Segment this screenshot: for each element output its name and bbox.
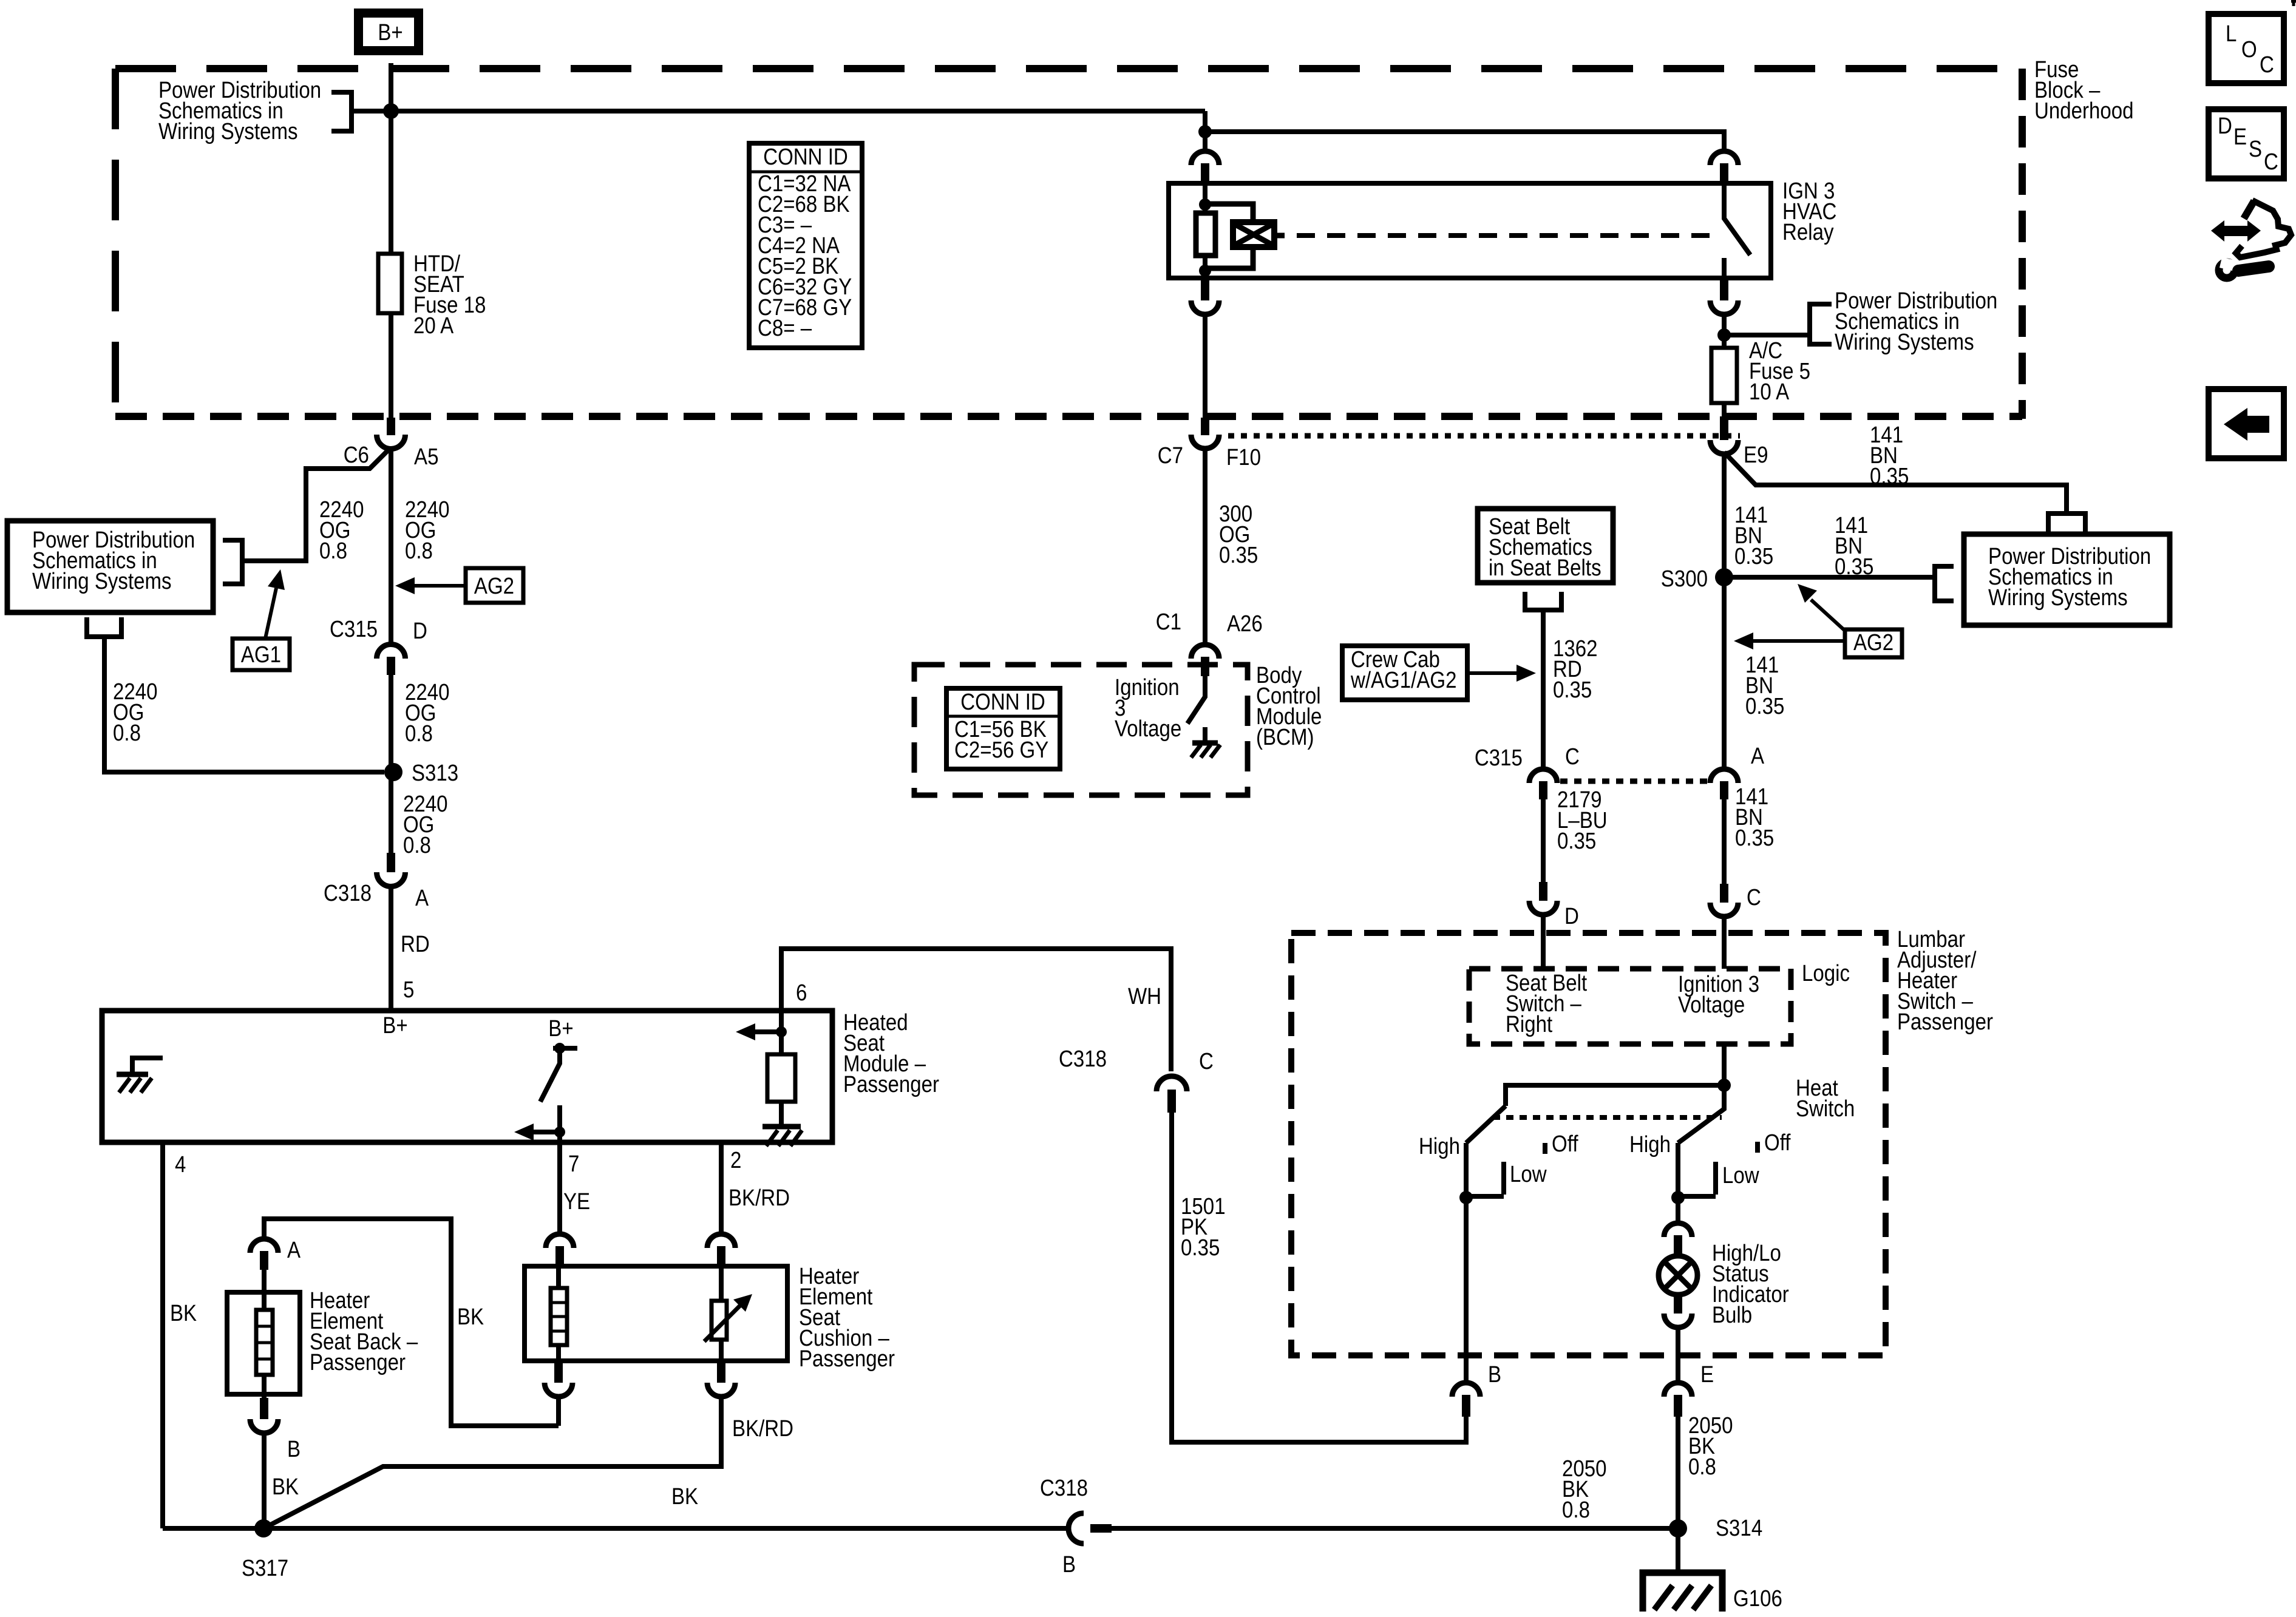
heat switch left blade <box>1466 1106 1506 1143</box>
node heat switch pivot junction <box>1717 1079 1731 1092</box>
svg-text:A: A <box>287 1237 301 1263</box>
svg-text:AG2: AG2 <box>1853 629 1894 656</box>
node heat switch left junction <box>1459 1191 1473 1204</box>
wire stub cushion left bottom <box>556 1397 561 1426</box>
connector C7/F10 stub and bowl <box>1201 418 1209 435</box>
bracket above power distribution box (top right) <box>2048 514 2085 532</box>
tag AG2 (left) <box>466 568 523 603</box>
tag Crew Cab w/AG1/AG2 <box>1342 646 1467 700</box>
svg-text:High: High <box>1629 1131 1671 1158</box>
svg-text:C1=32 NAC2=68 BKC3= –C4=2 NAC5: C1=32 NAC2=68 BKC3= –C4=2 NAC5=2 BKC6=32… <box>758 171 852 341</box>
module internal switch lower contact <box>557 1105 562 1132</box>
heater element seat back box <box>227 1292 300 1394</box>
svg-text:7: 7 <box>568 1151 579 1177</box>
heat switch left post <box>1464 1143 1469 1198</box>
svg-text:C318: C318 <box>324 880 372 906</box>
box Power Distribution Schematics in Wiring Systems (left) <box>7 521 213 612</box>
node S300 <box>1715 568 1733 586</box>
svg-text:4: 4 <box>175 1151 186 1178</box>
tag AG2 (right) <box>1845 629 1902 657</box>
heat switch right low contact <box>1678 1162 1716 1196</box>
heater element seat back connector B stub <box>260 1398 268 1419</box>
wire C315 D to C318 A <box>389 675 393 853</box>
svg-text:2: 2 <box>730 1147 741 1173</box>
connector C1 A26 cap <box>1191 645 1219 659</box>
node S314 <box>1669 1519 1687 1537</box>
connector C6/A5 terminal stub <box>387 418 395 435</box>
node S317 <box>254 1519 273 1537</box>
connector C318 A bowl <box>377 872 406 886</box>
svg-text:5: 5 <box>403 977 414 1003</box>
lamp high/lo status indicator bulb <box>1659 1256 1697 1295</box>
connector cushion right bottom stub <box>717 1361 725 1383</box>
svg-text:C1=56 BKC2=56 GY: C1=56 BKC2=56 GY <box>954 716 1048 763</box>
module internal ground (left) <box>132 1058 163 1074</box>
module internal ground (right) <box>763 1124 801 1130</box>
svg-text:A5: A5 <box>414 444 438 470</box>
svg-text:BK: BK <box>272 1474 299 1500</box>
arrow from AG2 to main wire <box>1753 639 1845 643</box>
logic dashed box <box>1469 969 1791 1044</box>
wire C6 branch to power distribution <box>242 450 389 561</box>
page corner mark <box>2291 0 2296 6</box>
svg-text:CONN ID: CONN ID <box>960 689 1045 715</box>
heated seat module box <box>102 1011 832 1142</box>
arrow from crew cab tag to wire <box>1467 671 1518 675</box>
connector C318 C cap <box>1156 1076 1187 1091</box>
svg-text:C315: C315 <box>1475 745 1523 771</box>
svg-text:Low: Low <box>1510 1161 1547 1187</box>
B+ power symbol <box>345 0 432 63</box>
ground G106 <box>1676 1528 1680 1571</box>
wire 1501 PK to lumbar switch B <box>1172 1113 1466 1442</box>
svg-text:6: 6 <box>796 980 807 1006</box>
svg-text:A26: A26 <box>1227 611 1263 637</box>
connector bulb top cap and stub <box>1664 1223 1692 1237</box>
connector C315 D terminal stub <box>387 657 395 675</box>
dotted C315 connector link <box>1560 779 1707 784</box>
connector C315 A cap and stub <box>1710 769 1738 783</box>
relay control dashed link <box>1297 233 1717 238</box>
svg-text:BK: BK <box>457 1304 484 1330</box>
svg-text:C6: C6 <box>344 442 369 468</box>
bracket to power distribution schematics (left) <box>223 540 242 584</box>
conn id table (underhood fuse block) <box>749 143 862 348</box>
svg-text:G106: G106 <box>1733 1585 1782 1612</box>
wire heat switch bus <box>1506 1085 1724 1106</box>
connector cushion left bottom stub <box>554 1361 563 1383</box>
svg-text:IGN 3HVACRelay: IGN 3HVACRelay <box>1782 178 1836 245</box>
svg-text:BK/RD: BK/RD <box>729 1185 790 1211</box>
wire bulb to E connector <box>1676 1327 1680 1383</box>
svg-text:AG2: AG2 <box>474 573 514 599</box>
svg-text:C: C <box>1747 884 1761 910</box>
BCM internal switch <box>1187 676 1205 724</box>
resistor heater element seat back <box>262 1270 267 1310</box>
svg-text:C: C <box>1565 744 1580 770</box>
heat switch left low contact <box>1466 1162 1504 1196</box>
svg-text:B+: B+ <box>382 1012 407 1039</box>
module internal switch T-bar <box>553 1046 577 1051</box>
svg-text:Logic: Logic <box>1802 960 1850 986</box>
wire S300 to A connector <box>1722 577 1727 769</box>
svg-text:S313: S313 <box>412 760 458 786</box>
node pin6 junction with arrow <box>776 1026 787 1037</box>
connector C6/A5 bowl <box>377 435 406 449</box>
wire C318 B to S314 <box>1112 1526 1678 1531</box>
svg-text:RD: RD <box>401 931 430 957</box>
resistor heater element seat cushion <box>556 1266 561 1288</box>
svg-text:A: A <box>1751 743 1764 769</box>
svg-text:B+: B+ <box>378 19 402 46</box>
DESC icon box <box>2209 109 2284 178</box>
svg-text:B: B <box>1488 1361 1501 1388</box>
wire seat back A to cushion element return <box>264 1219 559 1426</box>
connector C318 B terminal stub <box>1090 1524 1112 1533</box>
svg-text:BK: BK <box>671 1483 698 1510</box>
wire left switch to B connector <box>1464 1198 1469 1383</box>
wire main bus to relay <box>352 109 1205 114</box>
svg-text:B: B <box>287 1436 301 1462</box>
svg-text:L: L <box>2226 21 2237 47</box>
svg-text:C1: C1 <box>1156 609 1181 635</box>
BCM internal ground <box>1203 727 1207 743</box>
svg-text:O: O <box>2241 36 2257 63</box>
connector relay coil top cap <box>1191 151 1219 165</box>
svg-text:S: S <box>2249 136 2262 162</box>
relay switch <box>1724 185 1750 255</box>
bracket under left power distribution box <box>87 617 121 637</box>
wire A5 to C315 D <box>389 449 393 645</box>
wire logic output to switch bus <box>1722 1044 1727 1085</box>
conn id table (BCM) <box>946 688 1060 769</box>
connector C318 B arc <box>1068 1513 1084 1544</box>
seat belt schematics box <box>1478 509 1613 583</box>
back arrow icon box <box>2209 389 2284 458</box>
bracket under seat belt box <box>1525 592 1561 610</box>
fuse block underhood dashed box left edge <box>112 69 119 416</box>
relay coil <box>1203 185 1207 213</box>
svg-text:A: A <box>415 885 429 911</box>
connector lumbar C stub and bowl <box>1720 884 1728 903</box>
wire relay top bus <box>1205 132 1724 151</box>
connector E9 stub and bowl <box>1720 416 1728 440</box>
node relay feed junction <box>1198 125 1212 138</box>
heater element seat back connector A cap <box>250 1239 278 1253</box>
node A/C fuse feed junction <box>1717 328 1731 342</box>
wire bus corner to relay coil side <box>1203 111 1207 132</box>
bracket to power distribution schematics (relay area) <box>1810 304 1832 344</box>
fuse block underhood dashed box bottom edge <box>115 413 2022 420</box>
wire cushion right to S317 <box>263 1397 721 1528</box>
lumbar adjuster heater switch dashed box <box>1291 933 1886 1355</box>
svg-text:Low: Low <box>1722 1162 1759 1188</box>
arrow from AG1 to wire <box>265 588 276 639</box>
dotted mechanical link between blades <box>1493 1115 1722 1120</box>
node bus junction at B+ feed <box>383 103 399 119</box>
svg-text:C: C <box>2260 52 2274 78</box>
wire C315 C to D <box>1541 799 1546 882</box>
svg-text:D: D <box>413 618 427 644</box>
svg-text:YE: YE <box>563 1188 590 1215</box>
wire right switch to bulb <box>1676 1198 1680 1223</box>
svg-text:D: D <box>2218 113 2232 139</box>
fuse F5 A/C <box>1711 348 1737 403</box>
svg-text:C318: C318 <box>1040 1475 1088 1501</box>
relay K IGN3 HVAC box <box>1169 183 1771 278</box>
wire C to logic box <box>1722 917 1727 969</box>
connector C318 A terminal stub <box>387 853 395 872</box>
wire pin 4 to S317 <box>160 1142 165 1528</box>
wire relay coil to C7 <box>1203 314 1207 419</box>
connector cushion left bottom bowl <box>545 1383 572 1397</box>
variable resistor (thermistor) seat cushion <box>719 1266 724 1301</box>
wire left branch to S313 <box>104 637 384 772</box>
heater element seat cushion box <box>525 1266 787 1361</box>
svg-text:AG1: AG1 <box>241 642 281 668</box>
wire pin 7 to cushion element <box>557 1132 562 1235</box>
label Off (left) with tick <box>1543 1143 1547 1154</box>
svg-text:WH: WH <box>1128 983 1161 1009</box>
connector lumbar E cap and stub <box>1664 1383 1692 1397</box>
connector cushion pin2 cap <box>707 1234 735 1248</box>
label Off (right) with tick <box>1755 1142 1760 1153</box>
svg-text:B+: B+ <box>548 1015 573 1042</box>
tag AG1 <box>233 639 290 670</box>
module internal resistor (pin6) <box>779 1011 784 1054</box>
connector C318 C terminal stub <box>1167 1090 1176 1113</box>
fuse block underhood dashed box right edge <box>2019 69 2026 419</box>
bracket to power distribution schematics (S300 branch) <box>1935 566 1954 601</box>
connector relay switch top cap <box>1710 151 1738 165</box>
connector lumbar D stub and bowl <box>1539 882 1547 901</box>
svg-text:BK/RD: BK/RD <box>732 1415 793 1442</box>
wire S300 branch to power distribution <box>1724 575 1935 580</box>
svg-text:Off: Off <box>1552 1131 1578 1157</box>
wire E9 to S300 <box>1722 454 1727 577</box>
relay driver branch <box>1205 204 1253 268</box>
svg-text:E: E <box>2233 124 2247 150</box>
connector relay switch bottom stub and bowl <box>1720 278 1728 300</box>
svg-text:S300: S300 <box>1661 566 1708 592</box>
wire pin 6 to C318 C <box>781 949 1171 1071</box>
wire coil side drop <box>1203 132 1207 151</box>
wire fuse 18 to connector C6/A5 <box>389 313 393 419</box>
wire seat back B to S317 <box>262 1433 267 1528</box>
wire D to logic box <box>1541 915 1546 969</box>
node heat switch right junction <box>1671 1191 1685 1204</box>
wire fuse 5 to E9 <box>1722 403 1727 418</box>
connector cushion pin7 cap <box>546 1234 574 1248</box>
node pin7 junction with arrow <box>554 1127 565 1137</box>
svg-text:S317: S317 <box>242 1555 288 1581</box>
connector C315 C cap and stub <box>1529 769 1557 783</box>
arrow from AG2 to wire <box>415 584 466 588</box>
connector C315 D (upper) cap <box>377 645 406 659</box>
BCM dashed box <box>914 665 1248 795</box>
heat switch right blade <box>1678 1085 1724 1143</box>
svg-text:C: C <box>2264 149 2278 175</box>
box Power Distribution Schematics in Wiring Systems (top right) <box>1964 534 2170 625</box>
svg-text:BK: BK <box>170 1300 197 1326</box>
arrow from AG2 to S300 branch <box>1811 600 1845 631</box>
svg-text:F10: F10 <box>1226 444 1261 470</box>
connector cushion right bottom bowl <box>707 1383 735 1397</box>
svg-text:C318: C318 <box>1059 1046 1107 1072</box>
heat switch right post <box>1676 1143 1680 1198</box>
connector relay coil bottom stub and bowl <box>1201 278 1209 300</box>
svg-text:B: B <box>1062 1551 1076 1578</box>
wire C318 A to module pin 5 <box>389 886 393 1011</box>
svg-text:High: High <box>1419 1133 1460 1159</box>
svg-text:C7: C7 <box>1158 442 1183 469</box>
wire relay switch to A/C fuse <box>1722 314 1727 348</box>
connector lumbar B cap and stub <box>1452 1383 1480 1397</box>
fuse block underhood dashed box top edge <box>115 65 2022 72</box>
LOC icon box <box>2209 14 2284 83</box>
svg-text:S314: S314 <box>1716 1515 1762 1541</box>
wire E to S314 <box>1676 1417 1680 1528</box>
svg-text:D: D <box>1564 903 1579 929</box>
fuse block C2 dotted connector line <box>1228 433 1740 439</box>
bracket to power distribution schematics (top left) <box>331 92 352 131</box>
wire A to C (right) <box>1722 799 1727 884</box>
svg-text:E9: E9 <box>1744 442 1768 468</box>
wire C7 to BCM C1 <box>1203 449 1207 645</box>
relay solid state control element <box>1233 222 1274 247</box>
hand tool icon <box>2211 200 2291 278</box>
node S313 <box>384 763 402 781</box>
svg-text:Off: Off <box>1764 1130 1791 1156</box>
svg-text:CONN ID: CONN ID <box>763 144 848 170</box>
svg-text:C315: C315 <box>330 616 378 642</box>
wire B+ to fuse 18 <box>389 63 393 254</box>
svg-text:E: E <box>1700 1361 1714 1388</box>
wire E9 branch to power distribution box <box>1724 452 2067 512</box>
wire seat belt to C315 C <box>1541 610 1546 769</box>
svg-text:C: C <box>1199 1048 1214 1074</box>
wire pin 2 to cushion element <box>719 1142 724 1235</box>
heater element seat back connector B bowl <box>250 1419 278 1433</box>
fuse F18 HTD/SEAT <box>378 254 402 313</box>
wire S317 to C318 B <box>163 1526 1068 1531</box>
connector bulb bottom stub and bowl <box>1674 1293 1682 1314</box>
wire branch to power distribution (right top) <box>1724 333 1810 337</box>
module internal switch blade <box>540 1048 560 1102</box>
